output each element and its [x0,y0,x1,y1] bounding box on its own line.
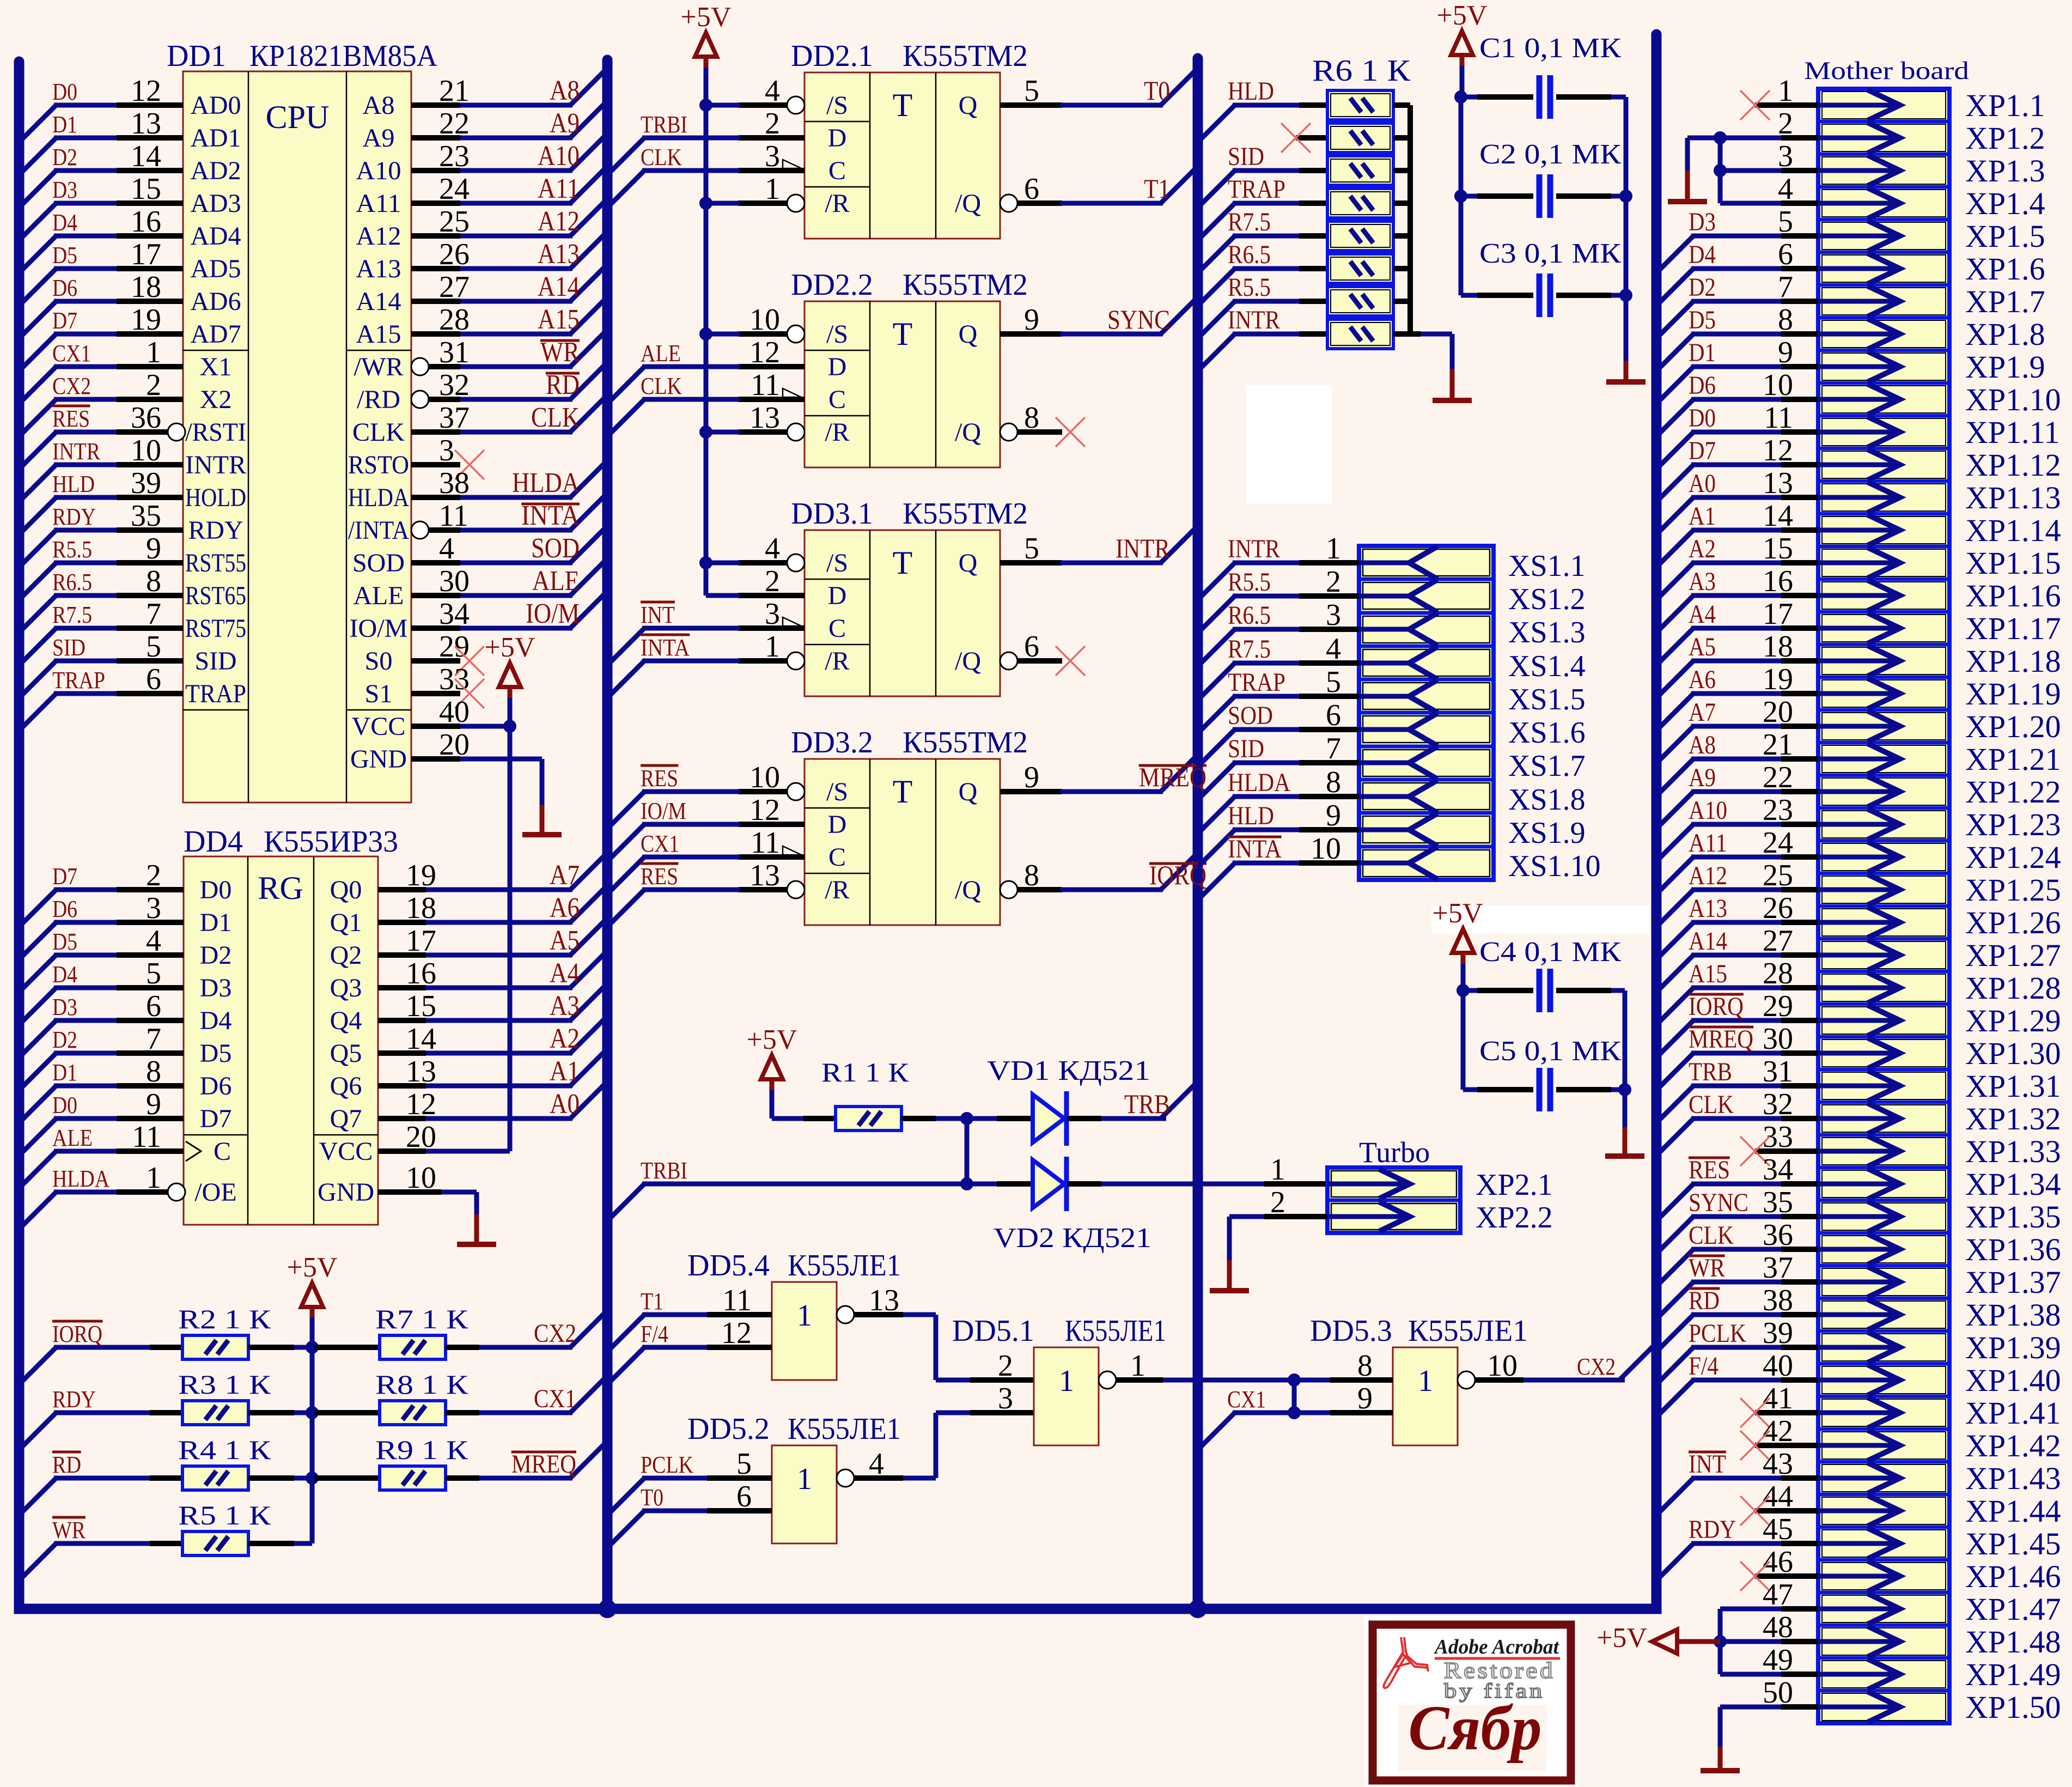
svg-text:CLK: CLK [531,402,580,433]
pin name A10 (CPU) [356,156,401,185]
chip DD3.2 function label T [893,774,913,810]
node A5 label (XP1.18) [1689,633,1716,661]
wire R5.5 net from bus to XS1 pin 2 [1198,596,1359,633]
connector XP1.33 contact symbol [1818,1136,1900,1166]
svg-text:XP1.5: XP1.5 [1965,218,2045,254]
svg-text:INTA: INTA [641,634,690,661]
svg-text:AD0: AD0 [191,91,241,120]
svg-text:6: 6 [146,989,161,1023]
pin 11 stub [738,854,805,860]
svg-text:8: 8 [146,564,161,598]
pin number 6 [1024,630,1039,664]
wire CLK net from bus to DD2.1 pin 3 [607,171,740,208]
connector XP1.50 contact symbol [1818,1692,1900,1722]
chip DD2.1 function label T [893,87,913,123]
wire RDY net from bus to R3 [19,1413,182,1450]
pin name HLDA (CPU) [348,483,409,512]
inversion circle CPU pin /WR [411,358,429,375]
node IO/M label [526,598,580,629]
connector pin label XP1.49 [1965,1657,2061,1692]
wire D6 net from bus to DD4 pin 3 [19,922,184,959]
node ALE label [532,566,580,597]
gate DD5.1 function label 1 [1059,1364,1074,1398]
svg-text:HLDA: HLDA [52,1165,109,1192]
wire R6.2 to common [1393,135,1410,141]
inversion circle DD5.2 output [837,1469,854,1487]
node PCLK label [641,1451,693,1478]
chip DD1 reference designator [167,39,226,73]
svg-text:D: D [828,124,847,153]
pin number 26 (XP1) [1763,891,1793,925]
wire A1 net from bus to XP1 pin 14 [1656,530,1818,567]
svg-text:5: 5 [736,1447,752,1481]
connector XS1.9 contact symbol [1359,813,1437,846]
node CX1 label [52,340,91,367]
wire RES net from bus to CPU pin 36 [19,432,168,469]
pin 3 stub [738,625,805,631]
svg-text:CLK: CLK [352,418,405,447]
capacitor C2 value label [1479,139,1621,170]
pin 13 stub [738,887,787,892]
wire A3 net from bus to XP1 pin 16 [1656,595,1818,633]
pin number 17 (XP1) [1763,597,1793,631]
connector XP1.44 contact symbol [1818,1496,1900,1526]
pin number 5 (XP1) [1778,205,1793,239]
pin name /Q (DD2.1) [955,189,981,218]
svg-text:CX1: CX1 [52,340,91,367]
svg-text:+5V: +5V [1433,898,1483,929]
connector XS1.8 contact symbol [1359,780,1437,813]
pin number 21 (CPU A8) [439,74,470,108]
pin number 37 (XP1) [1763,1251,1793,1285]
wire WR net from CPU pin 31 to bus [429,330,607,367]
pin number 19 (XP1) [1763,662,1793,696]
connector pin label XS1.5 [1508,683,1586,716]
wire C1-C3 right rail to ground [1619,97,1632,361]
inversion circle pin 10 [787,783,805,800]
svg-text:К555ИР33: К555ИР33 [264,825,398,859]
connector XP1.7 contact symbol [1818,286,1900,317]
svg-text:Q1: Q1 [330,908,362,937]
svg-text:/R: /R [825,189,849,218]
svg-text:3: 3 [146,891,161,925]
resistor R8 body [380,1401,446,1425]
node MREQ label [1139,762,1206,792]
svg-text:XP1.4: XP1.4 [1965,186,2045,221]
+5V supply (pullup rail R2-R9) [287,1252,338,1321]
svg-text:A11: A11 [1689,829,1727,858]
svg-text:10: 10 [1311,832,1341,866]
node R7.5 label [1228,208,1271,236]
pin number 9 (XS1) [1326,799,1341,832]
svg-text:Сябр: Сябр [1409,1692,1542,1764]
svg-text:D1: D1 [52,1059,77,1086]
svg-text:D7: D7 [52,863,77,890]
logo text by fifan [1444,1680,1545,1703]
svg-text:MREQ: MREQ [511,1450,576,1479]
pin number 16 (CPU AD4) [131,205,161,239]
wire XP1 pin 1 stub (no connect) [1740,90,1818,120]
wire A8 net from bus to XP1 pin 21 [1656,759,1818,796]
pin number 17 (DD4 Q2) [406,924,436,958]
pin number 40 (CPU VCC) [439,695,470,729]
node A14 label [538,271,580,302]
wire D2 net from bus to DD4 pin 7 [19,1053,184,1090]
svg-text:/Q: /Q [955,876,981,904]
svg-text:XS1.2: XS1.2 [1508,582,1586,616]
svg-text:R5.5: R5.5 [1228,273,1271,302]
svg-text:XP1.21: XP1.21 [1965,741,2061,777]
svg-text:XS1.8: XS1.8 [1508,783,1586,817]
pin 3 stub [738,168,805,173]
svg-text:SYNC: SYNC [1107,304,1170,335]
svg-text:R7 1 К: R7 1 К [375,1304,468,1334]
wire +5V to R1 [772,1090,836,1119]
pin number 38 (CPU HLDA) [439,466,470,500]
no-connect X [455,450,484,479]
svg-text:RES: RES [641,765,678,792]
pin name D (DD3.1) [828,581,847,610]
pin number 34 (XP1) [1763,1153,1793,1187]
inversion circle DD4 pin /OE [168,1183,185,1201]
svg-text:A10: A10 [538,141,580,172]
svg-text:T: T [893,774,913,810]
pin name A14 (CPU) [356,287,401,316]
svg-text:/R: /R [825,647,849,676]
svg-text:D6: D6 [200,1072,232,1101]
connector XP1.39 contact symbol [1818,1332,1900,1363]
ground (R6 common) [1433,369,1472,400]
wire A3 net from DD4 pin 15 to bus [378,983,607,1020]
svg-text:14: 14 [131,139,161,173]
svg-text:17: 17 [131,238,161,271]
svg-text:XP1.35: XP1.35 [1965,1199,2061,1235]
connector XP2.2 contact symbol [1327,1202,1410,1231]
svg-text:S1: S1 [365,679,393,708]
pin name D7 (DD4) [200,1104,232,1133]
svg-text:1: 1 [797,1299,812,1333]
svg-text:VD1 КД521: VD1 КД521 [987,1055,1150,1086]
pin 5 stub [1000,102,1062,108]
pin number 35 (CPU RDY) [131,499,161,533]
svg-text:XP1.49: XP1.49 [1965,1657,2061,1692]
node D7 label (XP1.12) [1689,436,1716,465]
pin name /WR (CPU) [354,352,404,381]
connector XP1.40 contact symbol [1818,1365,1900,1395]
wire R4 to +5V rail [248,1475,312,1481]
connector XP1.13 contact symbol [1818,482,1900,513]
svg-text:Q7: Q7 [330,1104,362,1133]
node TRAP label [1228,175,1285,204]
svg-text:CX2: CX2 [534,1319,576,1348]
wire WR net from bus to R5 [19,1543,182,1581]
clock chevron DD2.2 pin C [783,388,801,397]
svg-text:A0: A0 [550,1089,580,1120]
wire D6 net from bus to XP1 pin 10 [1656,399,1818,436]
pin name /OE (DD4) [194,1178,236,1207]
logic gate DD5.2 K555LE1 (NOR) body [772,1445,837,1543]
wire INTA net from bus to XS1 pin 10 [1198,863,1359,900]
svg-text:RES: RES [1689,1156,1730,1184]
svg-text:A4: A4 [1689,600,1716,629]
pin number 20 (DD4 VCC) [406,1120,436,1154]
svg-text:TRB: TRB [1689,1057,1732,1086]
svg-text:XP1.39: XP1.39 [1965,1330,2061,1365]
capacitor C2 body [1539,174,1550,218]
pin number 13 (DD5.4 output) [869,1284,899,1317]
bus 2 (vertical) [602,60,613,1609]
wire SID net from bus to CPU pin 5 [19,661,183,698]
resistor R9 value label [375,1435,468,1465]
wire RD net from bus to R4 [19,1478,182,1515]
pin number 4 (XS1) [1326,632,1341,666]
svg-text:A13: A13 [538,239,580,270]
wire XP1 pin 4 to ground group [1720,201,1818,206]
svg-text:XP1.16: XP1.16 [1965,578,2061,613]
connector pin label XP1.50 [1965,1689,2061,1725]
node R7.5 label (XS1) [1228,635,1271,664]
pin name /Q (DD3.1) [955,647,981,676]
pin name AD6 (CPU) [191,287,241,316]
svg-text:К555ЛЕ1: К555ЛЕ1 [1408,1314,1528,1348]
connector XP1.32 contact symbol [1818,1103,1900,1134]
svg-text:INT: INT [1689,1450,1726,1479]
connector pin label XS1.1 [1508,549,1586,583]
svg-text:XS1.4: XS1.4 [1508,649,1586,683]
svg-text:XP1.8: XP1.8 [1965,317,2045,352]
chip DD5.1 reference designator and part number [952,1314,1166,1348]
resistor R3 body [182,1401,248,1425]
wire SOD net from CPU pin 4 to bus [411,526,607,563]
inversion circle DD5.3 output [1458,1371,1475,1389]
node HLD label [1228,77,1274,106]
resistor R6.5 body [1327,221,1393,251]
pin 13 stub [738,429,787,435]
svg-text:A6: A6 [1689,665,1716,694]
pin 1 stub [738,658,787,664]
svg-text:XP1.34: XP1.34 [1965,1166,2061,1202]
pin number 38 (XP1) [1763,1284,1793,1317]
pin number 19 (DD4 Q0) [406,859,436,892]
wire CPU pin 29 stub (no connect) [411,658,460,664]
svg-text:Mother board: Mother board [1804,57,1969,85]
pin number 1 [765,630,780,664]
pin number 2 [765,107,780,141]
wire CLK net from bus to DD2.2 pin 11 [607,399,740,436]
pin number 1 [765,172,780,206]
svg-text:GND: GND [318,1178,374,1207]
svg-text:A9: A9 [1689,763,1716,792]
svg-text:XP1.3: XP1.3 [1965,153,2045,189]
svg-text:Q0: Q0 [330,876,362,904]
node SID label [1228,142,1264,171]
wire HLD net from bus to XS1 pin 9 [1198,830,1359,867]
svg-text:D0: D0 [200,876,232,904]
diode VD1 body [1033,1091,1067,1146]
pin number 10 (CPU INTR) [131,434,161,467]
wire HLD net from bus to CPU pin 39 [19,497,183,534]
wire +5V to DD2.1 pin 4 [699,99,740,112]
pin number 45 (XP1) [1763,1512,1793,1546]
svg-text:XP1.32: XP1.32 [1965,1101,2061,1136]
node A9 label [550,108,580,139]
svg-text:XP1.15: XP1.15 [1965,545,2061,581]
svg-text:A15: A15 [538,304,580,335]
connector XP1.24 contact symbol [1818,842,1900,872]
wire A13 net from bus to XP1 pin 26 [1656,922,1818,959]
pin name /S (DD3.2) [826,777,848,806]
svg-text:C: C [828,614,846,643]
svg-text:RDY: RDY [52,1386,96,1413]
pin number 4 (DD4 D2) [146,924,161,958]
logo Adobe Acrobat icon [1384,1637,1428,1688]
pin name /S (DD2.1) [826,91,848,120]
capacitor C5 body [1539,1068,1550,1111]
connector pin label XS1.2 [1508,582,1586,616]
wire XP1 ground group tie (pins 2-4) [1687,131,1727,203]
wire D3 net from bus to CPU pin 15 [19,203,183,240]
pin number 3 (XS1) [1326,598,1341,632]
connector XP1.20 contact symbol [1818,711,1900,741]
svg-text:IO/M: IO/M [526,598,580,629]
connector XP1.15 contact symbol [1818,548,1900,578]
svg-text:R6.5: R6.5 [52,569,92,595]
wire MREQ net from R9 to bus [446,1441,607,1478]
connector pin label XS1.4 [1508,649,1586,683]
diode VD1 value label [987,1055,1150,1086]
node WR label [52,1517,86,1543]
node T1 label [641,1288,663,1315]
svg-text:6: 6 [146,662,161,696]
svg-text:D5: D5 [52,928,77,955]
pin name Q3 (DD4) [330,974,362,1002]
svg-text:F/4: F/4 [641,1321,668,1347]
pin name /R (DD2.1) [825,189,849,218]
pin name C (DD2.2) [828,385,846,414]
chip DD2.1 К555ТМ2 (D flip-flop) body [805,72,1000,239]
pin name Q (DD2.2) [959,320,978,349]
svg-text:D3: D3 [1689,208,1716,236]
connector XP1.46 contact symbol [1818,1561,1900,1591]
svg-text:11: 11 [722,1284,752,1317]
inversion circle pin 8 [1000,881,1017,898]
svg-text:GND: GND [350,745,407,774]
wire ALE net from CPU pin 30 to bus [411,558,607,595]
pin number 33 (XP1) [1763,1120,1793,1154]
no-connect X (DD2.2 pin 8) [1056,417,1085,447]
connector pin label XP1.46 [1965,1559,2061,1594]
svg-text:2: 2 [998,1349,1013,1383]
node IORQ label (XP1.29) [1689,992,1744,1021]
pin number 16 (XP1) [1763,564,1793,598]
connector XP1.47 contact symbol [1818,1594,1900,1624]
node A0 label [550,1089,580,1120]
pin name /RD (CPU) [357,385,400,414]
node D7 label [52,307,77,334]
node CLK label (XP1.32) [1689,1090,1734,1119]
svg-text:XP1.11: XP1.11 [1965,415,2060,450]
wire CPU pin 33 stub (no connect) [411,691,460,696]
svg-text:SID: SID [195,647,237,676]
svg-text:RD: RD [52,1451,81,1478]
wire A6 net from DD4 pin 18 to bus [378,885,607,922]
wire C1 left lead [1461,95,1533,100]
wire A15 net from CPU pin 28 to bus [411,297,607,334]
pin name D2 (DD4) [200,941,232,970]
node INT label [641,601,675,628]
pin name AD1 (CPU) [191,124,241,153]
node A13 label [538,239,580,270]
node D3 label [52,177,77,203]
node D2 label [52,144,77,171]
pin name Q2 (DD4) [330,941,362,970]
svg-text:D: D [828,352,847,381]
pin number 11 (DD5.4) [722,1284,752,1317]
svg-text:XP1.27: XP1.27 [1965,938,2061,973]
svg-text:D2: D2 [52,144,77,171]
resistor R2 body [182,1335,248,1359]
svg-text:XP1.9: XP1.9 [1965,349,2045,385]
wire A8 net from CPU pin 21 to bus [411,68,607,105]
wire R6.4 to common [1393,200,1410,206]
resistor R3 value label [178,1369,271,1400]
pin 6 stub [1017,200,1062,206]
pin name X2 (CPU) [200,385,232,414]
wire D0 net from bus to CPU pin 12 [19,105,183,142]
chip DD2.2 reference designator [791,268,873,302]
wire R6.3 to common [1393,168,1410,173]
svg-text:/Q: /Q [955,647,981,676]
svg-text:XP1.24: XP1.24 [1965,840,2061,875]
wire RD net from CPU pin 32 to bus [429,362,607,399]
svg-text:CLK: CLK [641,144,682,171]
svg-text:IORQ: IORQ [52,1321,102,1347]
svg-text:CLK: CLK [641,373,682,399]
svg-text:C4 0,1 МК: C4 0,1 МК [1479,937,1621,968]
node A3 label (XP1.16) [1689,567,1716,596]
pin number 2 (XS1) [1326,565,1341,599]
wire XP1 pin 50 to ground [1720,1705,1818,1710]
pin number 3 [765,139,780,173]
pin name /RSTI (CPU) [185,418,246,447]
node R5.5 label (XS1) [1228,568,1271,597]
pin number 18 (DD4 Q1) [406,891,436,925]
wire +5V rail to R7 [312,1345,380,1350]
wire C3 left lead [1461,293,1533,298]
svg-text:D1: D1 [1689,338,1716,367]
svg-text:INTR: INTR [1116,533,1171,563]
gate DD5.3 function label 1 [1418,1364,1433,1398]
logic gate DD5.1 K555LE1 (NOR) body [1034,1347,1099,1445]
pin name RST75 (CPU) [185,614,246,643]
connector pin label XP1.4 [1965,186,2045,221]
wire A9 net from bus to XP1 pin 22 [1656,792,1818,829]
wire C5 left lead [1463,1087,1533,1092]
svg-text:D1: D1 [52,111,77,138]
connector pin label XP1.17 [1965,611,2061,646]
node A4 label (XP1.17) [1689,600,1716,629]
svg-text:RES: RES [641,863,678,890]
wire IORQ net from bus to XP1 pin 29 [1656,1020,1818,1057]
svg-text:XP1.33: XP1.33 [1965,1134,2061,1169]
node D6 label [52,275,77,301]
pin number 28 (XP1) [1763,957,1793,990]
node RES label (XP1.34) [1689,1156,1730,1184]
wire RES net from bus to XP1 pin 34 [1656,1184,1818,1221]
pin number 1 (XS1) [1326,532,1341,566]
wire MREQ net from bus to XP1 pin 30 [1656,1053,1818,1090]
wire TRBI net from bus to DD2.1 pin 2 [607,138,740,175]
